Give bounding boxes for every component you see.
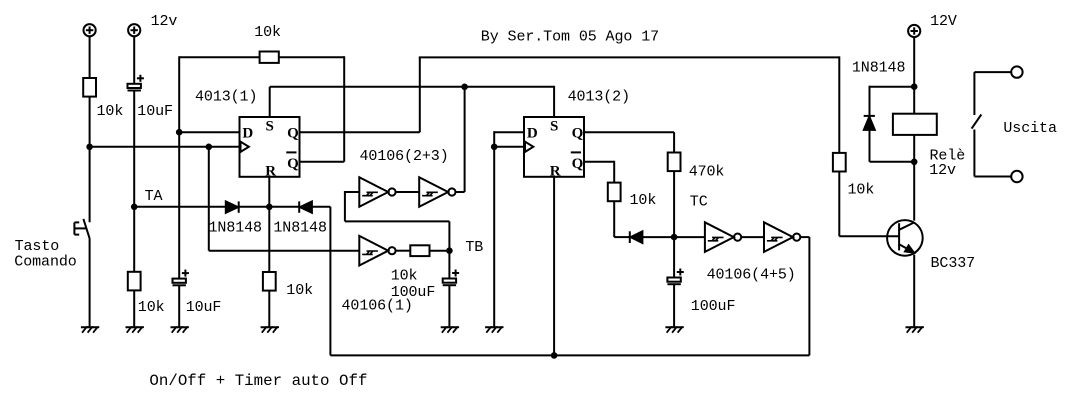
diode 1N8148 (left) [209,201,263,236]
wire [89,97,91,223]
node: D junction [176,129,183,136]
wire [345,191,359,193]
wire [613,201,615,237]
wire [913,255,915,328]
transistor BC337 Q1 [887,220,975,272]
svg-text:10uF: 10uF [137,103,173,120]
inverter 40106 #3 [419,177,455,207]
svg-text:D: D [527,125,538,141]
resistor 10k (top feedback) [254,24,281,63]
svg-text:Q: Q [287,126,299,142]
svg-text:Q: Q [572,156,584,172]
wire: bottom reset line [330,354,809,356]
resistor 10k (switch pull-up) [83,78,123,120]
diode 1N8148 (right) [273,201,327,236]
svg-text:TC: TC [690,194,708,211]
node: R of 4013(2) [551,352,558,359]
svg-text:1N8148: 1N8148 [852,60,906,77]
resistor 10k (Qbar) [608,183,657,210]
inverter 40106 #2 [359,177,395,207]
node: S line to inverter output [461,84,468,91]
wire [642,236,674,238]
svg-text:40106(2+3): 40106(2+3) [360,148,449,165]
ground [441,327,459,333]
node TA rail junction [131,204,138,211]
svg-text:100uF: 100uF [691,298,736,315]
wire [493,147,495,327]
wire [673,171,675,237]
capacitor 10uF (D rail) [173,270,222,316]
power terminal 12V (relay) [908,13,957,37]
wire [913,135,915,162]
wire [133,290,135,327]
wire [133,36,135,84]
wire [838,56,840,152]
wire [89,36,91,78]
switch Uscita [972,115,982,129]
svg-text:10uF: 10uF [186,299,222,316]
ground [485,327,503,333]
svg-text:1N8148: 1N8148 [209,219,263,236]
ground [171,327,189,333]
node: TA / R junction [266,204,273,211]
wire [133,91,135,207]
ground (emitter) [906,327,924,333]
wire [674,236,705,238]
wire [268,291,270,328]
svg-text:10k: 10k [391,268,418,285]
wire [869,130,871,162]
svg-text:12v: 12v [929,162,956,179]
wire [913,162,915,221]
wire [178,56,180,278]
svg-text:40106(4+5): 40106(4+5) [707,266,796,283]
wire [208,147,210,251]
svg-text:470k: 470k [689,163,725,180]
wire [178,285,180,327]
wire [239,206,300,208]
wire [800,236,809,238]
wire [913,37,915,114]
svg-text:R: R [265,164,276,180]
wire: D input 4013(1) [179,131,239,133]
wire [456,191,465,193]
wire: Q of 4013(1) up and across top [300,131,420,133]
resistor 10k (TB) [391,245,430,284]
inverter 40106 #1 [359,236,395,266]
wire: Qbar of 4013(2) [584,161,614,163]
op 4013(1) flip-flop U1 [240,117,300,180]
capacitor 10uF (top) [128,75,173,120]
rail: D of 4013(1), top wire through 10k to Qbar [179,56,259,58]
power terminal +12v (left, switch rail) [84,24,96,36]
svg-text:Q: Q [287,156,299,172]
ground [126,327,144,333]
node [911,83,918,90]
wire: R of 4013(1) [268,177,270,207]
wire: clock line [90,146,240,148]
power terminal 12v (second rail) [128,13,177,36]
wire [448,285,450,327]
label Tasto Comando [14,238,76,271]
capacitor 100uF (TC) [667,269,735,315]
wire [448,251,450,279]
svg-text:100uF: 100uF [391,284,436,301]
node: clock to 40106(1) tap [206,144,213,151]
node TC [671,234,678,241]
output terminal (top) [1011,66,1022,77]
ground (switch) [81,327,99,333]
wire: S of 4013(2) [553,86,555,117]
node [491,144,498,151]
svg-text:10k: 10k [97,103,124,120]
svg-text:10k: 10k [848,182,875,199]
svg-text:10k: 10k [286,282,313,299]
pushbutton switch Tasto Comando [74,219,89,239]
op 4013(2) flip-flop U2 [524,117,584,180]
svg-text:12V: 12V [930,13,957,30]
capacitor 100uF (TB) [391,270,459,301]
svg-text:10k: 10k [254,24,281,41]
wire [268,207,270,272]
wire [973,130,975,177]
svg-text:1N8148: 1N8148 [273,219,327,236]
wire [430,250,450,252]
wire [89,238,91,327]
resistor 10k (below 4013(1) R) [263,272,313,299]
resistor 470k [668,153,725,181]
svg-text:12v: 12v [151,13,178,30]
relay coil Relè 12v [893,114,965,179]
wire [396,191,419,193]
svg-text:On/Off + Timer auto Off: On/Off + Timer auto Off [149,372,367,390]
svg-text:S: S [550,118,558,134]
wire: D/clock of 4013(2) [494,131,524,133]
resistor 10k (base) [833,153,874,199]
node: clock line junction [86,144,93,151]
svg-text:By Ser.Tom 05 Ago 17: By Ser.Tom 05 Ago 17 [481,28,659,45]
wire [838,172,840,237]
wire: S line across [270,86,554,88]
svg-text:Tasto: Tasto [15,238,60,255]
wire [464,87,466,192]
resistor 10k (TA rail) [128,272,165,316]
ground [665,327,683,333]
wire: Q of 4013(2) [584,131,674,133]
diode 1N8148 (flyback) [864,116,875,130]
wire [396,250,410,252]
wire [673,237,675,277]
svg-text:TA: TA [145,188,163,205]
svg-text:S: S [266,118,274,134]
wire [673,284,675,327]
inverter 40106 #4 [705,222,741,252]
diode (to TC) [630,231,643,243]
wire: R of 4013(2) [553,177,555,356]
node TB [446,247,453,254]
wire [279,56,344,58]
ground [261,327,279,333]
svg-text:Uscita: Uscita [1003,120,1057,137]
svg-text:10k: 10k [630,192,657,209]
node [911,159,918,166]
svg-text:4013(2): 4013(2) [568,89,630,106]
svg-text:TB: TB [465,239,483,256]
wire: TA line [134,206,226,208]
inverter 40106 #5 [764,222,800,252]
svg-text:10k: 10k [138,299,165,316]
svg-text:Comando: Comando [14,253,76,270]
output terminal (bottom) [1011,171,1022,182]
wire [741,236,764,238]
wire: S of 4013(1) [269,87,271,117]
wire [133,207,135,272]
svg-text:Q: Q [572,126,584,142]
svg-text:4013(1): 4013(1) [195,89,257,106]
wire: diode branch [870,86,915,88]
svg-text:BC337: BC337 [931,255,976,272]
svg-text:R: R [550,164,561,180]
wire [312,206,331,208]
svg-text:D: D [242,125,253,141]
wire [974,71,1011,73]
